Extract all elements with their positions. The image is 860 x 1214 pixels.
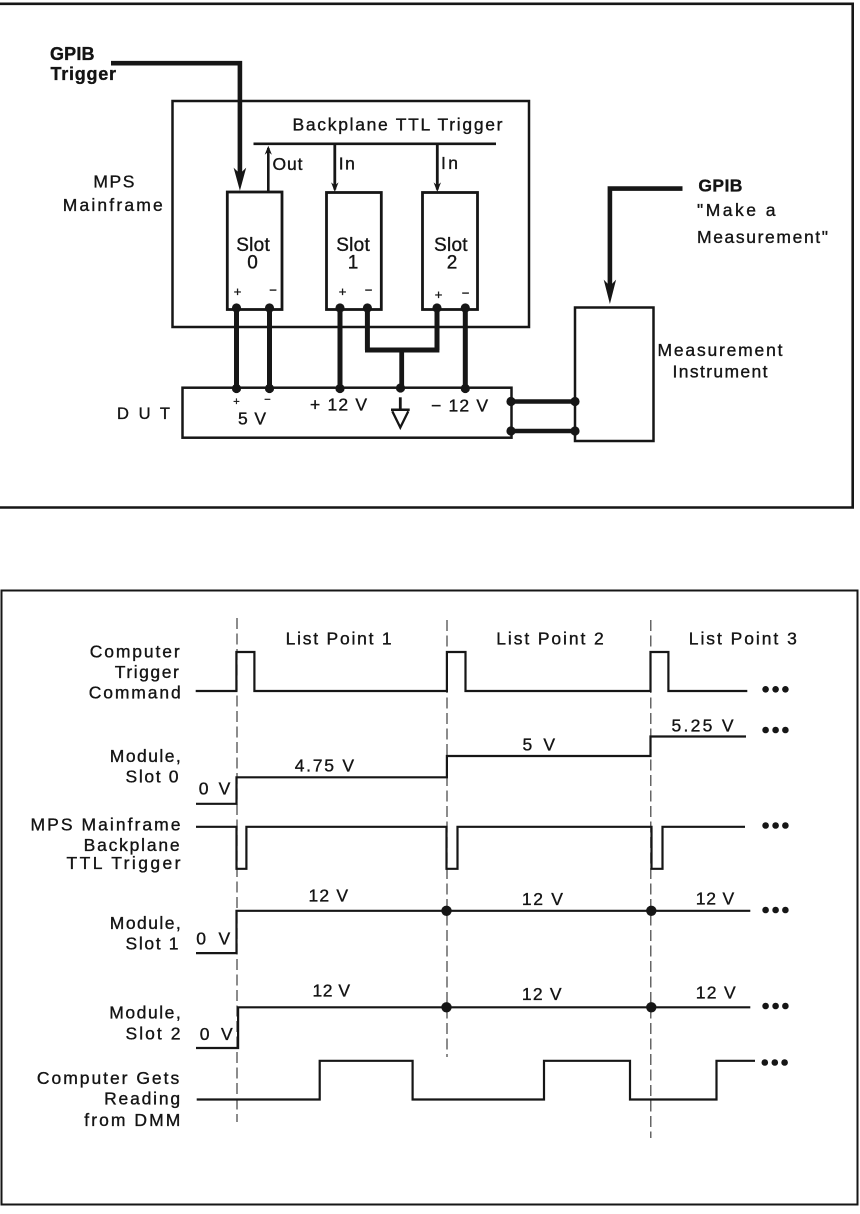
svg-text:+: + — [233, 396, 239, 408]
svg-text:Computer: Computer — [90, 642, 180, 662]
wire 12V common bus — [365, 348, 439, 353]
12 V labels slot 1 — [309, 886, 735, 909]
computer gets reading waveform — [197, 1061, 755, 1100]
list point 2 boundary dashed line — [446, 620, 448, 1057]
svg-text:0 V: 0 V — [199, 779, 231, 799]
svg-text:D U T: D U T — [117, 405, 170, 423]
svg-text:12 V: 12 V — [313, 981, 351, 1001]
svg-text:GPIB: GPIB — [698, 176, 742, 196]
svg-text:12 V: 12 V — [522, 984, 562, 1004]
svg-text:−: − — [365, 283, 373, 298]
Computer Trigger Command label — [89, 642, 181, 703]
Computer Gets Reading from DMM label — [37, 1068, 180, 1130]
svg-text:List Point 2: List Point 2 — [496, 629, 603, 649]
svg-text:Module,: Module, — [110, 746, 181, 766]
junction dots at slot outputs — [232, 303, 470, 312]
slot 1 waveform continuation dots — [762, 907, 788, 914]
junction dots slot 2 — [441, 1002, 656, 1012]
In arrow to slot 1 — [331, 145, 355, 192]
DMM waveform continuation dots — [762, 1059, 788, 1066]
svg-text:Computer Gets: Computer Gets — [37, 1068, 180, 1088]
slot 0 box — [227, 192, 282, 310]
svg-text:12 V: 12 V — [696, 983, 736, 1003]
svg-text:In: In — [441, 153, 458, 173]
GPIB Make a Measurement label — [697, 176, 828, 248]
wire slot0 + to DUT — [234, 308, 239, 389]
svg-text:from DMM: from DMM — [84, 1110, 180, 1130]
Module Slot 0 label — [110, 746, 181, 786]
svg-text:TTL Trigger: TTL Trigger — [67, 853, 181, 873]
wire slot0 - to DUT — [267, 308, 272, 389]
wire slot1 - to bus — [365, 308, 370, 350]
svg-text:+: + — [234, 284, 242, 299]
svg-text:4.75 V: 4.75 V — [295, 755, 355, 775]
MPS Mainframe Backplane TTL Trigger label — [31, 815, 181, 874]
svg-text:Backplane TTL Trigger: Backplane TTL Trigger — [293, 115, 503, 135]
svg-text:Trigger: Trigger — [51, 64, 117, 84]
svg-text:Module,: Module, — [110, 913, 181, 933]
module slot 2 waveform — [196, 1007, 750, 1048]
svg-text:0: 0 — [247, 252, 258, 273]
12 V labels slot 2 — [313, 981, 737, 1004]
svg-text:Slot 0: Slot 0 — [126, 766, 179, 786]
svg-text:12 V: 12 V — [309, 886, 349, 906]
svg-text:Out: Out — [273, 154, 303, 174]
module slot 1 waveform — [196, 911, 750, 953]
5V terminal labels — [233, 394, 270, 429]
slot 0 waveform continuation dots — [762, 727, 788, 734]
svg-text:0 V: 0 V — [196, 928, 230, 948]
svg-text:MPS: MPS — [93, 172, 134, 192]
wire GPIB trigger into slot 0 — [111, 61, 246, 191]
svg-text:Command: Command — [89, 682, 181, 702]
svg-text:"Make a: "Make a — [697, 200, 776, 220]
wire GPIB make-a-measurement arrow — [604, 186, 683, 304]
svg-text:−: − — [264, 394, 270, 406]
svg-text:Backplane: Backplane — [84, 835, 180, 855]
wire slot1 + to DUT — [338, 308, 343, 389]
wire slot2 - to DUT — [463, 308, 468, 389]
svg-text:+ 12 V: + 12 V — [310, 395, 367, 415]
wire slot2 + to bus — [435, 308, 440, 350]
panel 2 frame — [2, 591, 858, 1205]
Measurement Instrument label — [658, 340, 783, 382]
svg-text:0 V: 0 V — [200, 1024, 233, 1044]
ground symbol — [391, 397, 410, 427]
svg-text:Mainframe: Mainframe — [63, 195, 163, 215]
svg-text:List Point 1: List Point 1 — [286, 629, 392, 649]
svg-text:+: + — [339, 284, 347, 299]
wire bus to DUT ground — [399, 350, 404, 388]
measurement instrument box — [575, 308, 654, 442]
svg-text:−: − — [269, 283, 277, 298]
wire DUT to measurement instrument (upper) — [511, 399, 575, 404]
In arrow to slot 2 — [434, 145, 458, 192]
svg-text:12 V: 12 V — [522, 889, 563, 909]
svg-text:−: − — [462, 286, 470, 301]
svg-text:5.25 V: 5.25 V — [672, 716, 734, 736]
svg-text:5 V: 5 V — [238, 409, 266, 429]
MPS mainframe box — [173, 101, 530, 327]
list point 1 boundary dashed line — [236, 618, 238, 1122]
Out arrow from slot 0 — [265, 146, 303, 191]
backplane TTL trigger waveform — [196, 827, 745, 869]
svg-text:12 V: 12 V — [696, 889, 735, 909]
wire DUT to measurement instrument (lower) — [511, 429, 575, 434]
svg-text:In: In — [339, 154, 355, 174]
DUT box — [183, 388, 512, 438]
trigger waveform continuation dots — [762, 686, 788, 693]
svg-text:Slot 1: Slot 1 — [126, 933, 179, 953]
svg-text:Slot 2: Slot 2 — [126, 1023, 181, 1043]
svg-text:GPIB: GPIB — [50, 44, 95, 64]
TTL waveform continuation dots — [762, 822, 788, 829]
Module Slot 2 label — [109, 1002, 181, 1043]
svg-text:Measurement: Measurement — [658, 340, 783, 360]
svg-text:2: 2 — [447, 252, 458, 273]
panel 1 frame — [0, 4, 853, 508]
svg-text:Module,: Module, — [109, 1002, 181, 1022]
backplane TTL trigger bus wire — [254, 143, 497, 146]
computer trigger command waveform — [196, 652, 748, 691]
svg-text:− 12 V: − 12 V — [431, 396, 488, 416]
slot 2 box — [423, 193, 478, 310]
svg-text:Measurement": Measurement" — [697, 227, 828, 247]
module slot 0 staircase waveform — [196, 737, 746, 804]
junction dots at DUT inputs — [232, 383, 470, 393]
svg-text:Instrument: Instrument — [673, 362, 768, 382]
Module Slot 1 label — [110, 913, 181, 953]
svg-text:1: 1 — [348, 252, 359, 273]
svg-text:Trigger: Trigger — [115, 662, 179, 682]
svg-text:List Point 3: List Point 3 — [689, 629, 797, 649]
svg-text:5 V: 5 V — [523, 735, 556, 755]
junction dots on instrument wires — [506, 397, 579, 436]
slot 1 box — [327, 193, 382, 310]
slot 2 waveform continuation dots — [762, 1003, 788, 1010]
junction dots slot 1 — [441, 906, 656, 916]
GPIB Trigger label — [50, 44, 116, 84]
list point 3 boundary dashed line — [650, 620, 652, 1138]
svg-text:Reading: Reading — [104, 1089, 180, 1109]
MPS Mainframe label — [63, 172, 163, 215]
svg-text:MPS Mainframe: MPS Mainframe — [31, 815, 181, 835]
svg-text:+: + — [435, 287, 443, 302]
